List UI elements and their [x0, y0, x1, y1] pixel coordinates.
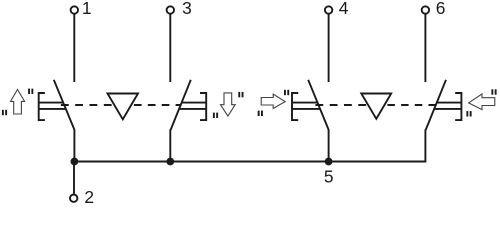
switch S2 blade — [171, 80, 191, 130]
push arrow right (S3) — [261, 94, 285, 108]
wire terminal3 to S2 — [169, 14, 171, 82]
terminal 2 circle — [70, 195, 77, 202]
plunger line S3 upper — [292, 102, 318, 104]
switch S3 blade — [308, 80, 329, 130]
dashed coupling triangle2 to S4 — [387, 104, 436, 106]
terminal 1 circle — [71, 6, 78, 13]
quote mark right of down arrow — [238, 92, 240, 97]
actuator bracket S2 — [200, 93, 206, 120]
dashed coupling S3 to triangle2 — [315, 104, 368, 106]
plunger line S1 lower — [39, 108, 66, 110]
wire S1 to bus — [73, 130, 75, 162]
junction dot node 5 — [325, 158, 333, 166]
terminal 6 circle — [422, 6, 429, 13]
quote mark left of right arrow — [258, 111, 260, 116]
wire S3 to bus — [328, 130, 330, 162]
svg-text:1: 1 — [82, 0, 92, 18]
plunger line S1 upper — [39, 102, 64, 104]
wire S4 to bus corner — [74, 130, 425, 162]
wire bus junction to terminal2 — [73, 162, 75, 194]
plunger line S2 upper — [181, 102, 206, 104]
terminal 3 circle — [167, 6, 174, 13]
actuator bracket S3 — [292, 93, 298, 120]
plunger line S4 upper — [437, 102, 462, 104]
quote mark left of up arrow — [2, 110, 4, 115]
svg-text:4: 4 — [339, 0, 349, 18]
dashed coupling S1 to triangle1 — [61, 104, 114, 106]
dashed coupling triangle1 to S2 — [134, 104, 182, 106]
switch S4 blade — [426, 80, 446, 130]
svg-text:2: 2 — [84, 187, 94, 205]
quote mark left of left arrow — [466, 111, 468, 116]
switch S1 blade — [54, 80, 75, 130]
quote mark right of right arrow — [284, 90, 286, 95]
quote mark right of up arrow — [28, 89, 30, 94]
push arrow down (S2) — [221, 93, 236, 116]
wire terminal1 to S1 — [73, 14, 75, 82]
plunger line S3 lower — [292, 108, 320, 110]
wire terminal6 to S4 — [424, 14, 426, 82]
push arrow up (S1) — [11, 90, 25, 115]
push arrow left (S4) — [469, 94, 495, 110]
detent triangle2 — [361, 94, 391, 119]
plunger line S4 lower — [434, 108, 461, 110]
quote mark left of down arrow — [213, 113, 215, 118]
junction dot node 2 bus left — [71, 158, 79, 166]
svg-text:5: 5 — [324, 167, 334, 187]
plunger line S2 lower — [179, 108, 206, 110]
detent triangle1 — [108, 94, 139, 120]
svg-text:6: 6 — [436, 0, 446, 18]
svg-text:3: 3 — [182, 0, 192, 18]
actuator bracket S1 — [39, 93, 45, 120]
terminal 4 circle — [325, 6, 332, 13]
quote mark right of left arrow — [491, 89, 493, 94]
wire S2 to bus — [169, 130, 171, 162]
actuator bracket S4 — [455, 93, 461, 120]
wire terminal4 to S3 — [328, 14, 330, 82]
junction dot S2 bus — [166, 158, 174, 166]
